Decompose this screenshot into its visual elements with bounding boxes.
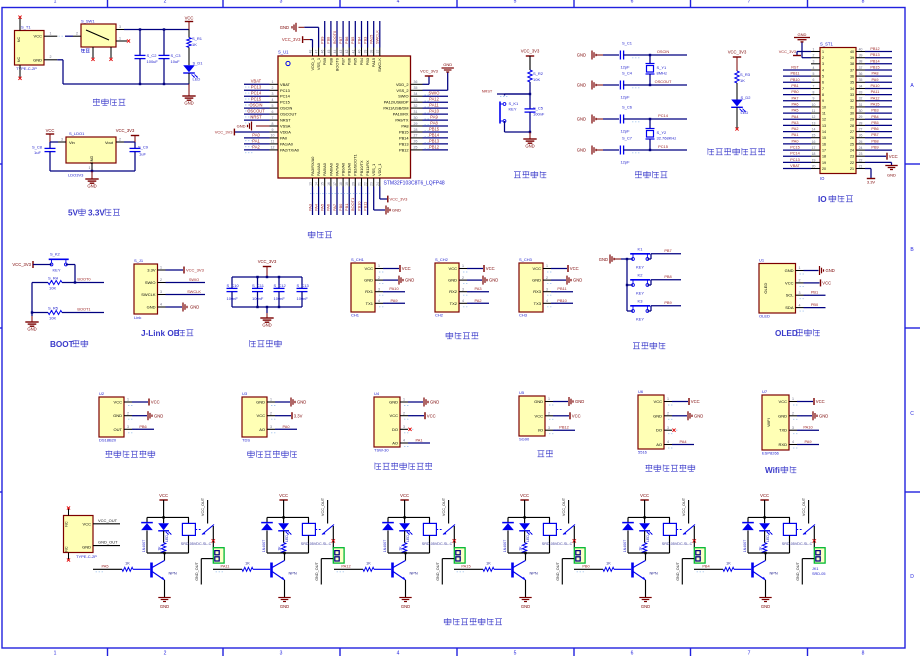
net label PB1 / wire bbox=[804, 294, 826, 296]
svg-text:2: 2 bbox=[799, 279, 801, 283]
svg-text:BOOT0: BOOT0 bbox=[332, 30, 337, 44]
S_CH2 pin 4 TX2 bbox=[459, 302, 467, 304]
S_ST1 pin 36 (right) bbox=[856, 75, 865, 77]
S_ST1 pin 32 (right) bbox=[856, 100, 865, 102]
svg-text:BOOT1: BOOT1 bbox=[350, 198, 355, 211]
svg-text:11: 11 bbox=[822, 112, 826, 116]
module S_CH3 (CH3) bbox=[519, 263, 543, 312]
module U3 (TDS) bbox=[242, 397, 267, 437]
wire / net label PA5 bbox=[324, 187, 326, 216]
power port VCC_3V3 at MCU VDD_1 top bbox=[312, 40, 314, 48]
svg-text:24: 24 bbox=[376, 182, 380, 186]
svg-text:VCC: VCC bbox=[570, 266, 579, 271]
S_SW1 bottom pins (no-ERC) bbox=[92, 47, 94, 58]
svg-text:45: 45 bbox=[327, 50, 331, 54]
svg-text:LED: LED bbox=[766, 535, 770, 542]
svg-text:6: 6 bbox=[272, 110, 274, 114]
S_ST1 pin 5 (left) bbox=[811, 75, 820, 77]
svg-text:4: 4 bbox=[813, 66, 815, 70]
MCU U1 STM32F103C8T6 body bbox=[278, 56, 411, 178]
svg-text:ESP8266: ESP8266 bbox=[762, 451, 780, 456]
power port GND at MCU VSS_1 bottom bbox=[373, 187, 375, 211]
svg-text:2: 2 bbox=[792, 412, 794, 416]
svg-text:39: 39 bbox=[859, 54, 863, 58]
svg-text:S_J1: S_J1 bbox=[134, 258, 144, 263]
svg-text:VCC: VCC bbox=[257, 413, 266, 418]
net label PA3 / wire bbox=[467, 291, 489, 293]
svg-text:23: 23 bbox=[859, 152, 863, 156]
S_ST1 pin 7 (left) bbox=[811, 88, 820, 90]
svg-text:PB10: PB10 bbox=[557, 298, 567, 303]
svg-text:7: 7 bbox=[272, 116, 274, 120]
MCU bottom pin 24 VDD_1 bbox=[379, 178, 381, 187]
S_CH1 pin 1 VCC bbox=[375, 268, 383, 270]
relay block 1: emitter wire to ground bbox=[164, 580, 166, 598]
svg-text:8: 8 bbox=[272, 122, 274, 126]
S_ST1 pin 24 (right) bbox=[856, 149, 865, 151]
svg-text:VCC: VCC bbox=[640, 493, 649, 498]
svg-text:3: 3 bbox=[378, 287, 380, 291]
svg-text:PA3/RX/A0: PA3/RX/A0 bbox=[310, 156, 315, 176]
svg-text:VCC_3V3: VCC_3V3 bbox=[779, 49, 796, 54]
relay block 6: GND_OUT wire bbox=[802, 558, 814, 560]
svg-text:3: 3 bbox=[403, 425, 405, 429]
svg-text:PB6: PB6 bbox=[871, 127, 878, 131]
S_CH2 pin 2 GND bbox=[459, 279, 467, 281]
svg-text:GND: GND bbox=[778, 413, 787, 418]
svg-text:PB9: PB9 bbox=[664, 300, 671, 305]
wire / net label PA1 bbox=[244, 143, 270, 145]
MCU right pin 35 VSS_2 bbox=[411, 89, 423, 91]
svg-text:DO: DO bbox=[656, 428, 662, 433]
svg-text:PA9: PA9 bbox=[872, 78, 879, 82]
svg-text:PA15: PA15 bbox=[371, 58, 376, 67]
wire / net label PA7 bbox=[783, 100, 811, 102]
svg-text:PA2: PA2 bbox=[792, 127, 799, 131]
svg-text:S_T1: S_T1 bbox=[21, 25, 31, 30]
svg-text:GND: GND bbox=[798, 32, 807, 37]
S_CH2 pin 3 RX2 bbox=[459, 291, 467, 293]
relay block 6: ground GND bbox=[759, 597, 771, 599]
wire to net label OSCIN bbox=[624, 54, 687, 56]
svg-text:GND: GND bbox=[154, 413, 163, 418]
U1 pin 2 VCC bbox=[796, 282, 804, 284]
svg-text:35: 35 bbox=[850, 81, 854, 85]
svg-text:11: 11 bbox=[271, 140, 275, 144]
svg-text:VCC: VCC bbox=[760, 493, 769, 498]
relay block 1: LED bbox=[163, 517, 165, 523]
svg-text:VCC: VCC bbox=[486, 266, 495, 271]
svg-text:PA11: PA11 bbox=[429, 103, 439, 108]
svg-text:PB10: PB10 bbox=[790, 78, 799, 82]
title: power circuit 电源电路 bbox=[93, 99, 100, 106]
svg-text:KEY: KEY bbox=[636, 317, 644, 322]
svg-text:U5: U5 bbox=[519, 390, 525, 395]
svg-text:PB5: PB5 bbox=[350, 37, 355, 44]
title: water quality sensing module 水质检测模块 bbox=[248, 451, 255, 458]
svg-text:38: 38 bbox=[850, 62, 854, 66]
svg-text:OLED: OLED bbox=[775, 329, 798, 338]
ground GND at U7 pin 2 bbox=[797, 415, 812, 417]
ground GND (filter) bbox=[266, 307, 268, 313]
svg-text:12: 12 bbox=[822, 118, 826, 122]
svg-text:VCC_OUT: VCC_OUT bbox=[321, 497, 325, 516]
relay block 4: transistor NPN bbox=[511, 563, 514, 578]
svg-text:SWCLK: SWCLK bbox=[141, 292, 156, 297]
svg-text:1: 1 bbox=[89, 166, 91, 170]
relay block 4: wire top rail bbox=[508, 516, 550, 518]
relay block 3: relay coil SRD-05VDC-SL-C bbox=[429, 517, 431, 523]
net label GND_OUT / wire bbox=[93, 545, 120, 547]
MCU top pin 37 SWCLK bbox=[379, 48, 381, 57]
svg-text:VCC: VCC bbox=[427, 413, 436, 418]
LED S_D2 bbox=[736, 83, 738, 100]
net label PB6 / wire bbox=[132, 428, 154, 430]
relay block 4: resistor 1K (LED) bbox=[524, 531, 526, 543]
svg-text:BOOT0: BOOT0 bbox=[77, 277, 91, 282]
svg-text:GND_OUT: GND_OUT bbox=[315, 562, 319, 581]
net label PA10 / wire bbox=[383, 291, 405, 293]
ground GND at U1 pin 1 bbox=[804, 270, 819, 272]
svg-text:SG90: SG90 bbox=[519, 437, 530, 442]
svg-text:1N4007: 1N4007 bbox=[623, 540, 627, 553]
svg-text:S_R1: S_R1 bbox=[192, 36, 203, 41]
power port VCC at U5 pin 2 bbox=[553, 415, 569, 417]
module U2 (DS18B20) bbox=[99, 397, 124, 437]
svg-text:PA0: PA0 bbox=[282, 424, 290, 429]
wire / net label PA9 bbox=[865, 81, 892, 83]
svg-text:VSS_1: VSS_1 bbox=[316, 58, 321, 70]
junction bbox=[91, 170, 93, 172]
svg-text:AO: AO bbox=[656, 442, 662, 447]
svg-text:GND: GND bbox=[525, 144, 534, 149]
svg-text:5: 5 bbox=[822, 75, 824, 79]
wire / net label PA10 bbox=[865, 88, 892, 90]
svg-text:43: 43 bbox=[339, 50, 343, 54]
U7 pin 4 RXD bbox=[789, 444, 797, 446]
wire / net label PC14 bbox=[244, 95, 270, 97]
MCU top pin 40 PB4 bbox=[361, 48, 363, 57]
relay block 6: transistor NPN bbox=[751, 563, 754, 578]
net label PA10 / wire bbox=[797, 429, 819, 431]
LDO regulator S_LDO1 bbox=[66, 137, 116, 163]
svg-text:1: 1 bbox=[548, 397, 550, 401]
svg-text:VCC_3V3: VCC_3V3 bbox=[282, 37, 301, 42]
svg-text:1uF: 1uF bbox=[34, 150, 41, 155]
relay block 6: flyback diode 1N4007 bbox=[747, 517, 749, 522]
relay block 5: wire bottom rail bbox=[628, 552, 670, 554]
svg-text:3: 3 bbox=[127, 425, 129, 429]
svg-text:3: 3 bbox=[462, 287, 464, 291]
svg-text:RX1: RX1 bbox=[365, 289, 374, 294]
svg-text:1: 1 bbox=[378, 264, 380, 268]
svg-text:100nF: 100nF bbox=[252, 296, 264, 301]
svg-text:PB14: PB14 bbox=[399, 135, 409, 140]
wire / net label BOOT1 bbox=[354, 187, 356, 216]
U1 pin 1 GND bbox=[796, 270, 804, 272]
svg-text:1: 1 bbox=[119, 36, 121, 40]
S_J1 pin 2 SWIO bbox=[158, 282, 166, 284]
relay block 2: transistor NPN bbox=[270, 563, 273, 578]
wire / net label PB9 bbox=[324, 21, 326, 48]
svg-text:44: 44 bbox=[333, 50, 337, 54]
svg-text:S_CH3: S_CH3 bbox=[519, 257, 533, 262]
connector T1 output (TYPE-C-2P) bbox=[64, 516, 94, 553]
svg-text:U7: U7 bbox=[762, 389, 768, 394]
svg-text:PC14: PC14 bbox=[251, 91, 262, 96]
svg-text:GND: GND bbox=[297, 400, 306, 405]
switch S_SW1 bbox=[81, 24, 116, 47]
relay block 5: wire top rail bbox=[628, 516, 670, 518]
relay block 5: terminal block JK bbox=[694, 548, 705, 563]
wire / net label SWCLK bbox=[379, 21, 381, 48]
relay block 1: contact linkage (dashed) bbox=[195, 529, 201, 531]
wire / net label PA5 bbox=[783, 112, 811, 114]
relay block 3: LED bbox=[404, 517, 406, 523]
svg-text:PA0: PA0 bbox=[280, 135, 288, 140]
wire / net label PB7 bbox=[342, 21, 344, 48]
svg-text:100nF: 100nF bbox=[533, 112, 545, 117]
svg-text:S_C3: S_C3 bbox=[171, 53, 182, 58]
MCU right pin 29 PA8 bbox=[411, 125, 423, 127]
svg-text:3.3V: 3.3V bbox=[147, 268, 156, 273]
crystal S_Y2 32.768KHz bbox=[649, 118, 651, 120]
svg-text:2: 2 bbox=[76, 32, 78, 36]
svg-text:NRST: NRST bbox=[250, 115, 262, 120]
svg-text:PB10: PB10 bbox=[356, 201, 361, 211]
relay block 2: VCC_OUT contact wire bbox=[327, 500, 329, 524]
S_ST1 pin 37 (right) bbox=[856, 69, 865, 71]
relay block 4: ground GND bbox=[519, 597, 531, 599]
svg-text:5: 5 bbox=[514, 651, 517, 656]
S_ST1 pin 8 (left) bbox=[811, 94, 820, 96]
wire / net label PB10 bbox=[361, 187, 363, 216]
U3 pin 1 GND bbox=[267, 401, 275, 403]
wire to net label PC15 bbox=[624, 149, 687, 151]
svg-text:NC: NC bbox=[65, 546, 69, 552]
svg-text:SWCLK: SWCLK bbox=[377, 58, 382, 72]
svg-text:PA10: PA10 bbox=[429, 109, 439, 114]
svg-text:OUT: OUT bbox=[114, 427, 123, 432]
svg-text:1: 1 bbox=[792, 397, 794, 401]
svg-text:27: 27 bbox=[850, 130, 854, 134]
wire / net label PB4 bbox=[865, 118, 892, 120]
svg-text:1: 1 bbox=[667, 397, 669, 401]
power port VCC at S_CH3 pin 1 bbox=[551, 268, 567, 270]
svg-text:S_C13: S_C13 bbox=[297, 283, 310, 288]
svg-text:S_C2: S_C2 bbox=[147, 53, 158, 58]
MCU top pin 46 PB9 bbox=[324, 48, 326, 57]
svg-text:LED: LED bbox=[526, 535, 530, 542]
svg-text:PB14: PB14 bbox=[870, 59, 879, 63]
svg-text:GND: GND bbox=[160, 604, 169, 609]
wire / net label PB8 bbox=[330, 21, 332, 48]
ground GND at MCU VSSA (pin 8) bbox=[256, 125, 270, 127]
svg-text:VCC_OUT: VCC_OUT bbox=[802, 497, 806, 516]
svg-text:VCC: VCC bbox=[365, 266, 374, 271]
svg-text:NPN: NPN bbox=[289, 571, 297, 576]
svg-text:40: 40 bbox=[850, 50, 854, 54]
svg-text:VCC: VCC bbox=[691, 399, 700, 404]
wire / net label PA11 bbox=[423, 107, 449, 109]
ground GND at S_ST1 pin 2 bbox=[802, 57, 811, 59]
wire / net label PA8 bbox=[423, 125, 449, 127]
MCU bottom pin 18 PB0/A0 bbox=[342, 178, 344, 187]
svg-text:GND: GND bbox=[577, 53, 586, 58]
S_ST1 pin 31 (right) bbox=[856, 106, 865, 108]
svg-text:PA2/TX/A0: PA2/TX/A0 bbox=[280, 147, 300, 152]
svg-text:GND_OUT: GND_OUT bbox=[436, 562, 440, 581]
svg-text:32.768KHz: 32.768KHz bbox=[657, 136, 677, 141]
MCU left pin 4 PC15 bbox=[270, 101, 279, 103]
ground GND at S_J1 pin 4 bbox=[166, 306, 183, 308]
relay block 2: contact linkage (dashed) bbox=[315, 529, 321, 531]
svg-text:PC14: PC14 bbox=[658, 113, 669, 118]
svg-text:GND: GND bbox=[147, 305, 156, 310]
key switch K2 bbox=[627, 284, 633, 286]
svg-text:PB0: PB0 bbox=[582, 564, 590, 569]
S_ST1 pin 16 (left) bbox=[811, 143, 820, 145]
wire / net label BOOT0 bbox=[336, 21, 338, 48]
wire / net label OSCOUT bbox=[244, 113, 270, 115]
svg-text:PA11/USB/DM: PA11/USB/DM bbox=[383, 106, 408, 111]
svg-text:SRD-05VDC-SL-C: SRD-05VDC-SL-C bbox=[542, 542, 573, 546]
svg-text:PA5: PA5 bbox=[792, 109, 799, 113]
svg-text:2: 2 bbox=[160, 278, 162, 282]
U2 pin 3 OUT bbox=[124, 428, 132, 430]
svg-text:1K: 1K bbox=[740, 78, 745, 83]
wire / net label OSCIN bbox=[244, 107, 270, 109]
U7 pin 1 VCC bbox=[789, 401, 797, 403]
svg-text:S_D2: S_D2 bbox=[741, 95, 752, 100]
svg-text:1: 1 bbox=[799, 266, 801, 270]
MCU top pin 39 PB3 bbox=[367, 48, 369, 57]
wire / net label VBAT bbox=[244, 83, 270, 85]
S_T1 pin 2 GND stub bbox=[44, 59, 57, 61]
svg-text:GND: GND bbox=[448, 278, 457, 283]
svg-text:NPN: NPN bbox=[169, 571, 177, 576]
relay block 1: transistor NPN bbox=[150, 563, 153, 578]
svg-text:32: 32 bbox=[414, 104, 418, 108]
svg-text:3: 3 bbox=[548, 426, 550, 430]
svg-text:GND: GND bbox=[430, 400, 439, 405]
wire / net label PB1 bbox=[348, 187, 350, 216]
svg-text:VCC: VCC bbox=[822, 281, 831, 286]
svg-text:3.3V: 3.3V bbox=[294, 413, 303, 418]
MCU right pin 32 PA11/USB/DM bbox=[411, 107, 423, 109]
wire / net label PA15 bbox=[373, 21, 375, 48]
svg-text:OSCIN: OSCIN bbox=[280, 106, 293, 111]
svg-text:13: 13 bbox=[812, 121, 816, 125]
capacitor S_C8 1uF bbox=[49, 142, 51, 148]
svg-text:24: 24 bbox=[850, 149, 854, 153]
capacitor S_C2 100uF bbox=[139, 30, 141, 56]
svg-text:22: 22 bbox=[850, 161, 854, 165]
S_CH3 pin 1 VCC bbox=[543, 268, 551, 270]
U2 pin 2 GND bbox=[124, 415, 132, 417]
relay block 4: LED bbox=[524, 517, 526, 523]
resistor S_R3 1K bbox=[735, 71, 739, 83]
U4 pin 3 DO bbox=[400, 428, 408, 430]
power port VCC_3V3 at MCU VDD_1 bottom bbox=[379, 187, 381, 200]
net label PA1 / wire bbox=[408, 442, 430, 444]
svg-text:6: 6 bbox=[813, 78, 815, 82]
relay block 1: base resistor 1K bbox=[122, 567, 133, 571]
MCU top pin 42 PB6 bbox=[348, 48, 350, 57]
svg-text:39: 39 bbox=[364, 50, 368, 54]
svg-text:1N4007: 1N4007 bbox=[383, 540, 387, 553]
S_ST1 pin 28 (right) bbox=[856, 124, 865, 126]
wire / net label PB11 bbox=[367, 187, 369, 216]
relay block 5: transistor NPN bbox=[631, 563, 634, 578]
svg-text:7: 7 bbox=[822, 87, 824, 91]
svg-text:DO: DO bbox=[392, 427, 398, 432]
module U1 (OLED) bbox=[759, 264, 796, 314]
svg-text:PA1: PA1 bbox=[252, 138, 260, 143]
S_ST1 pin 35 (right) bbox=[856, 81, 865, 83]
svg-text:8: 8 bbox=[822, 93, 824, 97]
MCU top pin 38 PA15 bbox=[373, 48, 375, 57]
relay block 1: flyback diode 1N4007 bbox=[146, 517, 148, 522]
svg-text:25: 25 bbox=[859, 140, 863, 144]
svg-text:BOOT0: BOOT0 bbox=[334, 57, 339, 71]
svg-text:U6: U6 bbox=[638, 389, 644, 394]
power port VCC_3V3 (LDO output) bbox=[134, 136, 136, 143]
svg-text:4: 4 bbox=[378, 299, 380, 303]
wire from key to BOOT0 row bbox=[66, 264, 75, 266]
wire / net label PB4 bbox=[361, 21, 363, 48]
svg-text:VCC: VCC bbox=[535, 413, 544, 418]
svg-text:SWIO: SWIO bbox=[429, 91, 440, 96]
svg-text:SCL: SCL bbox=[786, 293, 795, 298]
svg-text:PB7: PB7 bbox=[664, 248, 671, 253]
svg-text:S_U1: S_U1 bbox=[278, 50, 289, 55]
svg-text:CH1: CH1 bbox=[351, 313, 360, 318]
svg-text:PB15: PB15 bbox=[870, 66, 879, 70]
relay block 1: wire bottom rail bbox=[147, 552, 189, 554]
svg-text:PC13: PC13 bbox=[790, 158, 800, 162]
svg-text:S_C1: S_C1 bbox=[622, 41, 633, 46]
svg-text:PA12: PA12 bbox=[341, 564, 350, 569]
relay block 3: resistor 1K (LED) bbox=[404, 531, 406, 543]
svg-text:3: 3 bbox=[799, 291, 801, 295]
relay block 2: emitter wire to ground bbox=[284, 580, 286, 598]
svg-text:3: 3 bbox=[61, 137, 63, 141]
svg-text:PA8: PA8 bbox=[430, 120, 438, 125]
svg-text:DS18B20: DS18B20 bbox=[99, 438, 117, 443]
MCU right pin 34 SWIO bbox=[411, 95, 423, 97]
svg-text:30: 30 bbox=[859, 109, 863, 113]
MCU bottom pin 15 PA5/A0 bbox=[324, 178, 326, 187]
svg-text:1: 1 bbox=[160, 266, 162, 270]
svg-text:PA2: PA2 bbox=[474, 298, 481, 303]
svg-text:24: 24 bbox=[859, 146, 863, 150]
S_ST1 pin 10 (left) bbox=[811, 106, 820, 108]
title: servo 舵机 bbox=[538, 451, 545, 457]
U4 pin 2 VCC bbox=[400, 415, 408, 417]
title: relay control circuit 继电器控制电路 bbox=[444, 618, 451, 625]
svg-text:PA7/A0: PA7/A0 bbox=[334, 162, 339, 176]
MCU top pin 48 VDD_1 bbox=[312, 48, 314, 57]
svg-text:12pF: 12pF bbox=[620, 160, 630, 165]
resistor S_R5 10K bbox=[32, 312, 48, 314]
power port VCC at U1 pin 2 bbox=[804, 282, 820, 284]
svg-text:1: 1 bbox=[462, 264, 464, 268]
S_ST1 pin 6 (left) bbox=[811, 81, 820, 83]
wire / net label PA10 bbox=[423, 113, 449, 115]
relay block 3: switch contact arm bbox=[443, 525, 455, 535]
S_SW1 pin 1 stub (right, no-ERC) bbox=[116, 40, 127, 42]
